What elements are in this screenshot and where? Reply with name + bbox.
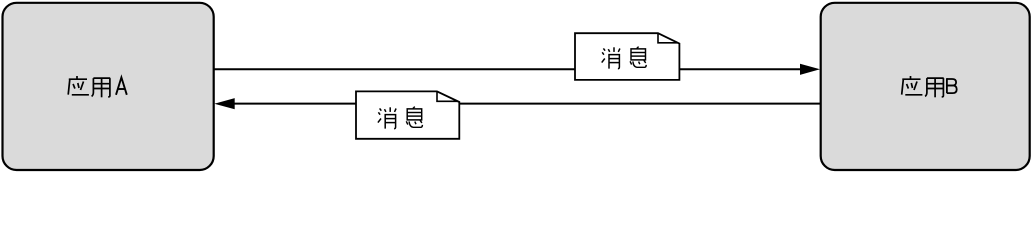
wire bottom B to A bbox=[235, 103, 821, 105]
box 应用B bbox=[821, 3, 1030, 170]
wire top A to B bbox=[214, 68, 801, 70]
label 消息 top bbox=[602, 47, 646, 69]
box 应用A bbox=[3, 3, 214, 170]
note 消息 top bbox=[575, 33, 679, 80]
label 应用A bbox=[68, 76, 127, 97]
label 应用B bbox=[902, 76, 957, 97]
note 消息 bottom bbox=[356, 91, 459, 138]
arrowhead into A bbox=[214, 98, 234, 109]
arrowhead into B bbox=[800, 64, 820, 75]
label 消息 bottom bbox=[378, 107, 423, 129]
